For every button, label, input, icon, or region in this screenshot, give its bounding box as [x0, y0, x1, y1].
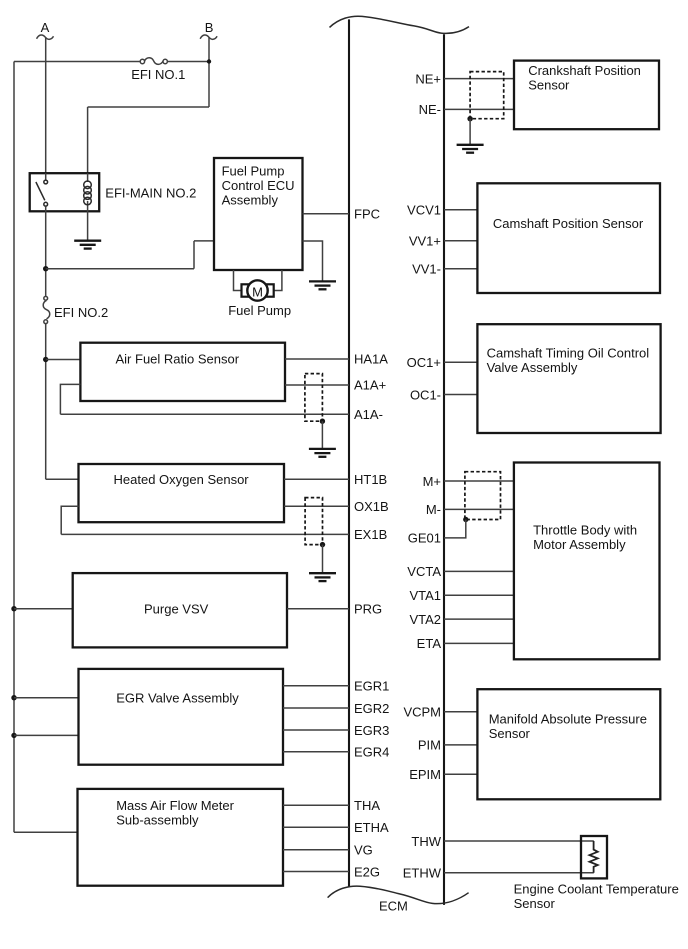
fuel pump control ECU box — [214, 158, 303, 270]
svg-text:OX1B: OX1B — [354, 499, 389, 514]
relay EFI-MAIN NO.2 box — [30, 173, 100, 211]
wire VCPM — [444, 711, 477, 713]
svg-text:VCPM: VCPM — [403, 705, 441, 720]
wire B vertical — [208, 37, 210, 107]
right pin labels — [403, 71, 442, 880]
ground relay coil — [74, 241, 101, 249]
svg-text:A: A — [41, 20, 50, 35]
svg-text:EFI-MAIN NO.2: EFI-MAIN NO.2 — [105, 186, 196, 201]
svg-text:Sub-assembly: Sub-assembly — [116, 813, 199, 828]
wire VCTA — [444, 570, 514, 572]
svg-text:HT1B: HT1B — [354, 472, 387, 487]
svg-text:OC1-: OC1- — [410, 387, 441, 402]
wire EGR3 — [283, 729, 349, 731]
ECM right line — [443, 34, 445, 905]
wire EX1B — [61, 533, 349, 535]
mass air flow meter box — [78, 789, 284, 886]
wire VTA2 — [444, 618, 514, 620]
wire EGR2 — [283, 707, 349, 709]
svg-text:Air Fuel Ratio Sensor: Air Fuel Ratio Sensor — [116, 351, 240, 366]
wire M+ — [444, 480, 514, 482]
wire ETHA — [283, 826, 349, 828]
svg-text:VTA1: VTA1 — [409, 588, 441, 603]
shield dot crankshaft — [467, 116, 472, 121]
wire FPC to ECM — [303, 213, 350, 215]
wire ETHW — [444, 872, 594, 874]
svg-text:THW: THW — [411, 834, 441, 849]
ground AFR shield — [309, 449, 336, 457]
wire HA1A — [285, 358, 349, 360]
wire crankshaft shield ground stem — [469, 119, 471, 145]
wire EFI NO.1 row left — [14, 61, 140, 63]
shield crankshaft dashed — [470, 72, 504, 119]
svg-text:Camshaft Timing Oil Control: Camshaft Timing Oil Control — [487, 345, 650, 360]
svg-text:Throttle Body with: Throttle Body with — [533, 523, 637, 538]
wire ECU to right ground — [303, 241, 323, 281]
wire VG — [283, 849, 349, 851]
wire THW — [444, 840, 594, 842]
connector B break squiggle — [200, 35, 217, 39]
wire AFR shield ground stem — [321, 421, 323, 449]
svg-text:VCTA: VCTA — [407, 564, 441, 579]
wire HT1B — [284, 478, 349, 480]
engine coolant temperature sensor box — [581, 836, 607, 878]
relay switch bottom contact — [44, 202, 48, 206]
throttle body with motor assembly box — [514, 463, 660, 660]
resistor thermistor — [590, 841, 598, 873]
wire FPC feed horizontal — [46, 268, 194, 270]
wire A1A- — [60, 413, 349, 415]
svg-text:Sensor: Sensor — [528, 77, 570, 92]
svg-text:NE+: NE+ — [415, 71, 441, 86]
relay switch bottom stub — [45, 206, 47, 211]
svg-text:NE-: NE- — [419, 102, 441, 117]
shield AFR dashed — [305, 374, 323, 422]
wire PIM — [444, 744, 477, 746]
EGR valve assembly box — [79, 669, 284, 765]
svg-text:PIM: PIM — [418, 738, 441, 753]
wire HOS shield ground stem — [322, 545, 324, 574]
junction dot AFR feed — [43, 357, 48, 362]
fuse EFI NO.1 — [140, 58, 167, 65]
wire OC1+ — [444, 361, 477, 363]
wire HOS loop left — [61, 506, 78, 534]
wire EGR feed 2 — [14, 734, 79, 736]
svg-text:VG: VG — [354, 843, 373, 858]
wire EGR feed 1 — [14, 697, 79, 699]
purge VSV box — [73, 573, 287, 647]
wire purge feed — [14, 608, 73, 610]
svg-text:VCV1: VCV1 — [407, 203, 441, 218]
wire AFR loop left — [60, 384, 80, 414]
wire ECU to motor right — [274, 270, 282, 291]
shield HOS dashed — [305, 498, 322, 545]
relay switch top contact — [44, 180, 48, 184]
svg-text:ECM: ECM — [379, 898, 408, 913]
wire THA — [283, 804, 349, 806]
wire NE+ — [444, 78, 514, 80]
junction dot EGR feed 1 — [11, 695, 16, 700]
wire M- — [444, 508, 514, 510]
camshaft position sensor box — [477, 183, 660, 293]
svg-text:EGR1: EGR1 — [354, 679, 389, 694]
svg-text:FPC: FPC — [354, 207, 380, 222]
wire A bus below fuse — [45, 324, 47, 479]
shield throttle dashed — [465, 472, 501, 520]
svg-text:B: B — [205, 20, 214, 35]
wire VTA1 — [444, 594, 514, 596]
ECM bottom wave — [328, 886, 469, 904]
wire relay switch down to junction — [45, 211, 47, 296]
shield dot throttle — [463, 517, 468, 522]
svg-text:THA: THA — [354, 798, 380, 813]
wire ECU to motor left — [234, 270, 242, 291]
junction dot FPC feed — [43, 266, 48, 271]
svg-text:EGR3: EGR3 — [354, 723, 389, 738]
air fuel ratio sensor box — [80, 343, 285, 401]
svg-text:EX1B: EX1B — [354, 527, 387, 542]
svg-text:Mass Air Flow Meter: Mass Air Flow Meter — [116, 798, 234, 813]
svg-text:Valve Assembly: Valve Assembly — [487, 360, 578, 375]
svg-text:A1A+: A1A+ — [354, 378, 386, 393]
heated oxygen sensor box — [79, 464, 285, 522]
wire OC1- — [444, 394, 477, 396]
wire ETA — [444, 642, 514, 644]
wire EFI NO.1 row right — [167, 61, 209, 63]
wire EGR4 — [283, 751, 349, 753]
motor fuel pump — [242, 280, 274, 300]
junction dot B / EFI NO.1 — [207, 59, 211, 63]
svg-text:M+: M+ — [423, 474, 441, 489]
wire FPC feed vertical — [193, 241, 195, 269]
manifold absolute pressure sensor box — [477, 689, 660, 799]
svg-text:EFI NO.2: EFI NO.2 — [54, 305, 108, 320]
svg-text:VV1+: VV1+ — [409, 234, 441, 249]
svg-text:Fuel Pump: Fuel Pump — [222, 164, 285, 179]
crankshaft position sensor box — [514, 61, 659, 130]
svg-text:E2G: E2G — [354, 864, 380, 879]
svg-text:Control ECU: Control ECU — [222, 178, 295, 193]
svg-text:Heated Oxygen Sensor: Heated Oxygen Sensor — [114, 472, 250, 487]
junction dot EGR feed 2 — [11, 733, 16, 738]
svg-text:EGR4: EGR4 — [354, 745, 389, 760]
shield dot HOS — [320, 542, 325, 547]
left bus vertical — [13, 62, 15, 833]
svg-text:ETHW: ETHW — [403, 866, 442, 881]
left bus elbow to MAF — [14, 831, 78, 833]
svg-text:Assembly: Assembly — [222, 193, 279, 208]
svg-text:Fuel Pump: Fuel Pump — [228, 303, 291, 318]
ground HOS shield — [309, 573, 336, 581]
wire coil column vertical — [87, 107, 89, 173]
svg-text:Sensor: Sensor — [489, 726, 531, 741]
svg-text:Crankshaft Position: Crankshaft Position — [528, 63, 641, 78]
junction dot purge feed — [11, 606, 16, 611]
ECM left line — [348, 19, 350, 887]
wire AFR feed — [46, 359, 81, 361]
svg-text:Manifold Absolute Pressure: Manifold Absolute Pressure — [489, 712, 647, 727]
wire FPC feed to ECU box — [194, 240, 214, 242]
wire VV1- — [444, 268, 477, 270]
wire E2G — [283, 871, 349, 873]
svg-text:ETA: ETA — [417, 636, 442, 651]
relay coil stubs — [87, 173, 89, 182]
svg-text:EFI NO.1: EFI NO.1 — [131, 67, 185, 82]
wire EPIM — [444, 773, 477, 775]
ground ECU right — [309, 281, 336, 289]
svg-text:EGR Valve Assembly: EGR Valve Assembly — [116, 691, 239, 706]
shield dot AFR — [320, 419, 325, 424]
wire A vertical to relay — [45, 37, 47, 173]
ground crankshaft shield — [457, 145, 484, 153]
svg-text:Sensor: Sensor — [514, 896, 556, 911]
svg-text:HA1A: HA1A — [354, 351, 388, 366]
svg-text:EGR2: EGR2 — [354, 701, 389, 716]
svg-text:ETHA: ETHA — [354, 820, 389, 835]
relay switch blade — [36, 182, 45, 200]
svg-text:Camshaft Position Sensor: Camshaft Position Sensor — [493, 216, 644, 231]
svg-text:Purge VSV: Purge VSV — [144, 602, 209, 617]
fuse EFI NO.2 — [43, 296, 50, 323]
wire OX1B — [284, 505, 349, 507]
wire EGR1 — [283, 685, 349, 687]
connector A break squiggle — [37, 35, 54, 39]
left pin labels — [354, 207, 389, 880]
ECM top wave — [330, 16, 470, 33]
wire B horizontal to coil column — [88, 106, 209, 108]
wire PRG — [287, 608, 349, 610]
svg-text:PRG: PRG — [354, 602, 382, 617]
svg-text:VTA2: VTA2 — [409, 612, 441, 627]
wire HOS feed elbow — [46, 478, 79, 480]
wire A1A+ — [285, 384, 349, 386]
relay coil — [84, 181, 92, 205]
wire relay coil to ground — [87, 211, 89, 241]
relay switch top stub — [45, 173, 47, 180]
wire GE01 — [444, 520, 466, 538]
svg-text:EPIM: EPIM — [409, 767, 441, 782]
svg-text:GE01: GE01 — [408, 531, 441, 546]
svg-text:OC1+: OC1+ — [407, 355, 441, 370]
svg-text:M-: M- — [426, 502, 441, 517]
camshaft timing oil control valve box — [477, 324, 660, 433]
wire VV1+ — [444, 240, 477, 242]
svg-text:VV1-: VV1- — [412, 262, 441, 277]
svg-text:Engine Coolant Temperature: Engine Coolant Temperature — [514, 882, 679, 897]
wire VCV1 — [444, 209, 477, 211]
svg-text:Motor Assembly: Motor Assembly — [533, 537, 626, 552]
svg-text:A1A-: A1A- — [354, 407, 383, 422]
wire NE- — [444, 108, 514, 110]
svg-text:M: M — [252, 285, 263, 300]
